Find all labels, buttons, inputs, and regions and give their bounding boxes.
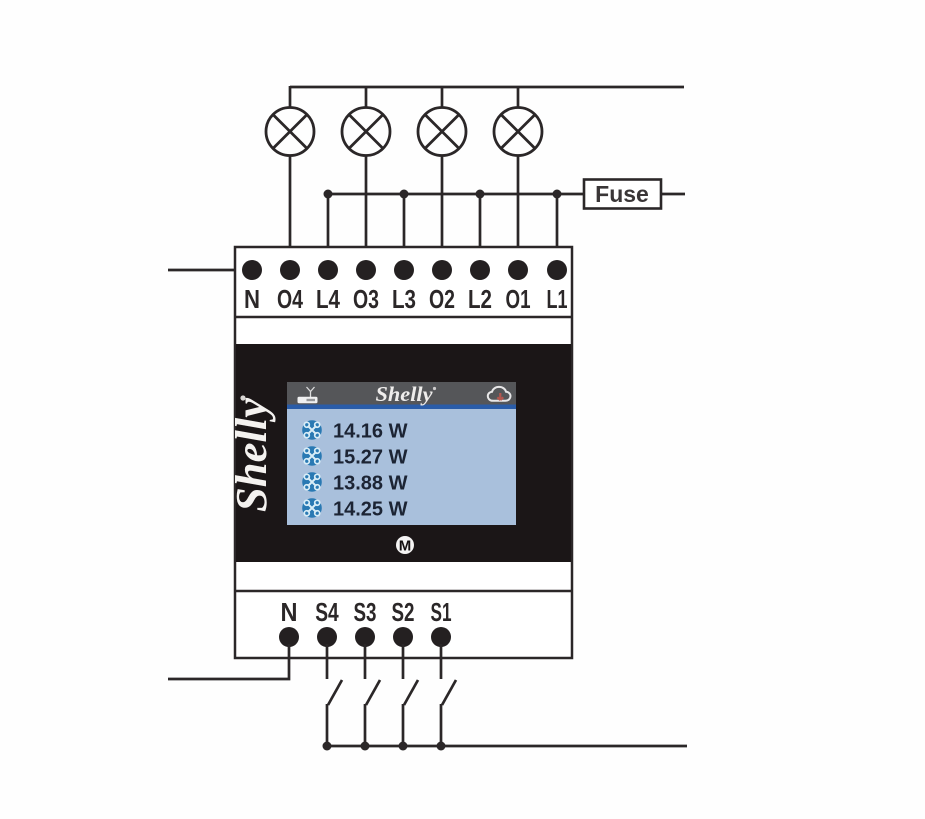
svg-text:O2: O2 [429, 284, 455, 314]
switch SW1 [441, 644, 456, 746]
svg-text:Shelly: Shelly [227, 398, 276, 512]
lamp 3 [418, 108, 466, 156]
terminal O2 [432, 260, 452, 280]
wire live bus to fuse [328, 193, 584, 196]
svg-text:N: N [244, 284, 260, 314]
terminal O4 [280, 260, 300, 280]
channel 1 power [333, 421, 408, 443]
svg-text:14.25 W: 14.25 W [333, 499, 408, 521]
wire neutral in [168, 269, 252, 272]
svg-text:Shelly: Shelly [376, 382, 434, 406]
svg-text:13.88 W: 13.88 W [333, 473, 408, 495]
wire lamp1 to O4 [289, 156, 292, 271]
channel 4 icon [302, 498, 322, 518]
wire lamp3 to O2 [441, 156, 444, 271]
wire lamp2 top stub [365, 86, 368, 108]
svg-text:L2: L2 [468, 284, 492, 314]
wire switch common bus [327, 745, 687, 748]
svg-text:O1: O1 [506, 284, 531, 314]
svg-text:M: M [399, 538, 412, 555]
terminal O3 [356, 260, 376, 280]
junction L3 [400, 190, 409, 199]
Shelly side logo [227, 395, 276, 512]
svg-text:L1: L1 [547, 284, 568, 314]
label N top [244, 284, 260, 314]
label S4 [315, 597, 339, 627]
terminal L4 [318, 260, 338, 280]
switch SW3 [365, 644, 380, 746]
fuse F1 [584, 180, 661, 209]
device top separator [235, 316, 572, 318]
label L1 [547, 284, 568, 314]
wire L4 drop [327, 194, 330, 270]
wire lamp4 to O1 [517, 156, 520, 271]
svg-text:15.27 W: 15.27 W [333, 447, 408, 469]
svg-text:L4: L4 [316, 284, 340, 314]
junction L4 [324, 190, 333, 199]
junction S3 bus [361, 742, 370, 751]
svg-text:S4: S4 [315, 597, 339, 627]
wire lamp2 to O3 [365, 156, 368, 271]
label L3 [392, 284, 416, 314]
wire L2 drop [479, 194, 482, 270]
terminal L1 [547, 260, 567, 280]
terminal S4 [317, 627, 337, 647]
wire lamp4 top stub [517, 86, 520, 108]
svg-text:L3: L3 [392, 284, 416, 314]
terminal N top [242, 260, 262, 280]
label O2 [429, 284, 455, 314]
wire fuse to supply [661, 193, 685, 196]
terminal N bottom [279, 627, 299, 647]
terminal S1 [431, 627, 451, 647]
channel 4 power [333, 499, 408, 521]
svg-text:O3: O3 [353, 284, 379, 314]
channel 2 power [333, 447, 408, 469]
label L4 [316, 284, 340, 314]
label O3 [353, 284, 379, 314]
wire neutral bottom [168, 644, 289, 679]
terminal S3 [355, 627, 375, 647]
wire L3 drop [403, 194, 406, 270]
switch SW2 [403, 644, 418, 746]
channel 3 icon [302, 472, 322, 492]
label L2 [468, 284, 492, 314]
svg-text:S1: S1 [431, 597, 452, 627]
junction S4 bus [323, 742, 332, 751]
lamp 1 [266, 108, 314, 156]
label O1 [506, 284, 531, 314]
label S3 [354, 597, 377, 627]
svg-text:S3: S3 [354, 597, 377, 627]
wire L1 drop [556, 194, 559, 270]
junction L2 [476, 190, 485, 199]
svg-text:N: N [281, 597, 298, 627]
button M [396, 536, 414, 555]
label O4 [277, 284, 303, 314]
junction S2 bus [399, 742, 408, 751]
svg-text:Fuse: Fuse [595, 181, 649, 207]
terminal S2 [393, 627, 413, 647]
device bottom separator [235, 590, 572, 592]
svg-text:14.16 W: 14.16 W [333, 421, 408, 443]
wire top neutral bus [290, 86, 684, 89]
wire lamp1 top stub [289, 86, 292, 108]
channel 3 power [333, 473, 408, 495]
display screen [287, 382, 516, 525]
terminal L3 [394, 260, 414, 280]
svg-text:S2: S2 [392, 597, 415, 627]
lamp 4 [494, 108, 542, 156]
wire lamp3 top stub [441, 86, 444, 108]
junction L1 [553, 190, 562, 199]
lamp 2 [342, 108, 390, 156]
label N bottom [281, 597, 298, 627]
terminal O1 [508, 260, 528, 280]
terminal L2 [470, 260, 490, 280]
switch SW4 [327, 644, 342, 746]
label S2 [392, 597, 415, 627]
junction S1 bus [437, 742, 446, 751]
channel 1 icon [302, 420, 322, 440]
device black face [236, 344, 571, 562]
svg-text:O4: O4 [277, 284, 303, 314]
label S1 [431, 597, 452, 627]
display cloud icon [488, 387, 511, 401]
channel 2 icon [302, 446, 322, 466]
device body Shelly Pro 4PM [235, 247, 572, 658]
display Shelly logo [376, 382, 437, 406]
display wifi router icon [298, 387, 318, 403]
